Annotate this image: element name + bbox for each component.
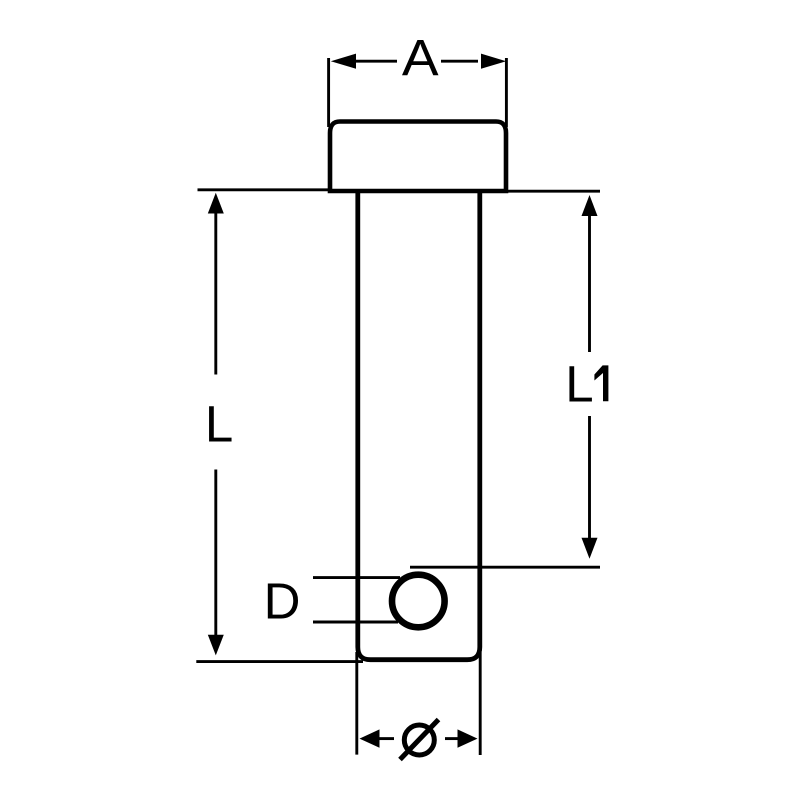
svg-text:D: D — [264, 573, 301, 630]
svg-text:A: A — [402, 30, 439, 87]
svg-text:L: L — [565, 355, 593, 412]
svg-text:L: L — [205, 395, 233, 452]
